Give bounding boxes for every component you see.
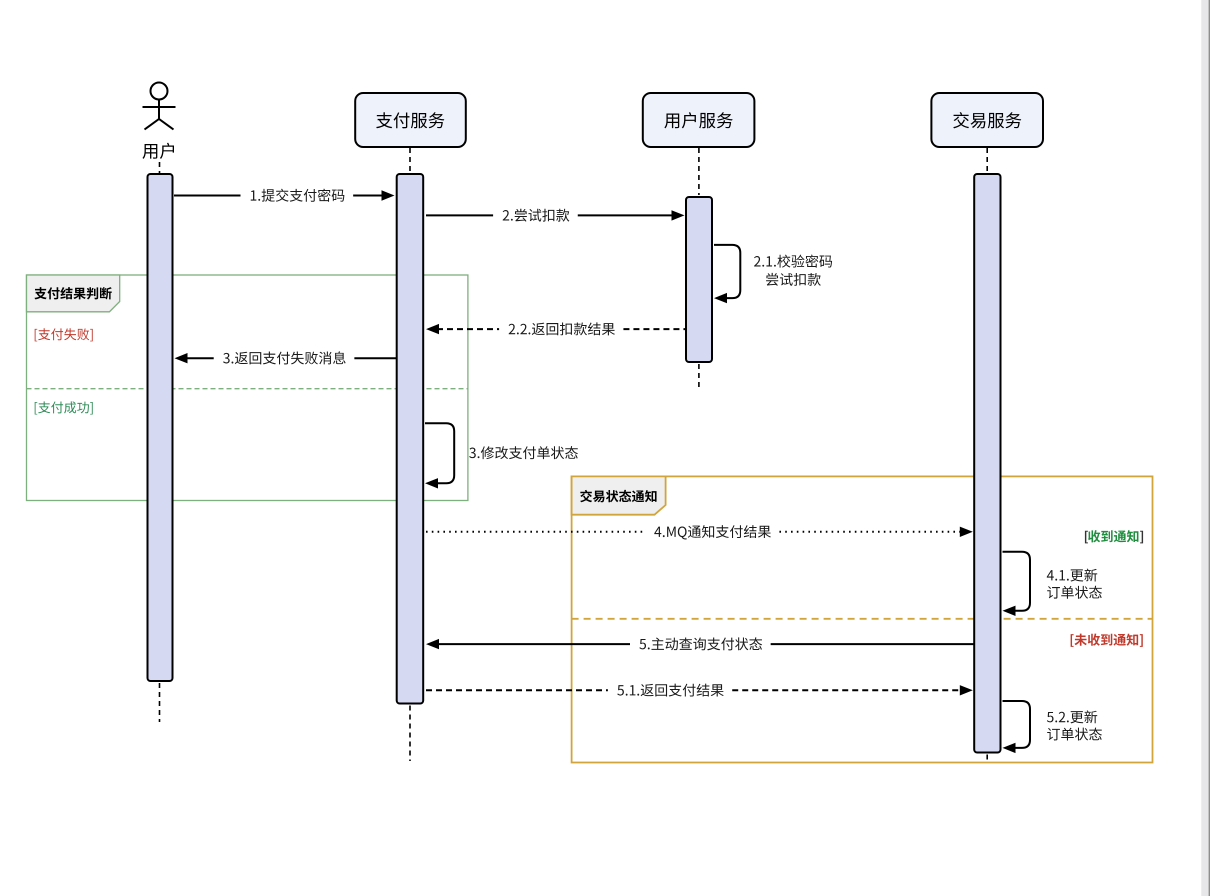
self message 5.2 label line2 <box>1047 728 1102 741</box>
activation bar 支付服务 <box>397 174 424 704</box>
actor 用户 legs <box>145 119 174 130</box>
right scrollbar track <box>1201 0 1210 896</box>
message 3.返回支付失败消息 line <box>175 353 397 363</box>
self message 2.1 label line1 <box>754 255 832 268</box>
alt frame title tab <box>27 275 120 312</box>
actor 用户 head <box>151 83 168 100</box>
guard [支付成功] <box>35 401 93 414</box>
lifeline 用户服务 upper <box>698 148 700 195</box>
message 1.提交支付密码 label <box>251 189 345 202</box>
alt frame divider <box>27 388 468 390</box>
message 5.主动查询支付状态 label <box>639 637 762 650</box>
message 2.2.返回扣款结果 label <box>509 322 615 335</box>
self message 3 loop <box>425 423 454 483</box>
message 1.提交支付密码 line <box>174 190 395 200</box>
actor 用户 arms <box>143 106 176 108</box>
activation bar 交易服务 <box>974 174 1000 753</box>
activation bar 用户服务 <box>686 197 712 362</box>
guard [收到通知] bracket open <box>1085 531 1088 544</box>
self message 4.1 label line2 <box>1047 586 1102 599</box>
lifeline 用户 lower <box>159 683 161 722</box>
guard [支付失败] <box>35 328 93 341</box>
opt frame 交易状态通知 border <box>572 476 1153 762</box>
message 3.返回支付失败消息 label <box>223 351 346 364</box>
self message 4.1 label line1 <box>1047 569 1097 582</box>
actor 用户 body <box>158 100 160 120</box>
lifeline 用户服务 lower <box>698 364 700 388</box>
self message 5.2 loop <box>1003 701 1031 748</box>
lifeline 支付服务 lower <box>409 706 411 762</box>
opt frame title tab <box>572 476 666 514</box>
guard [收到通知] text <box>1088 530 1138 542</box>
self message 2.1 loop <box>714 245 740 298</box>
lifeline header 支付服务 <box>355 93 466 147</box>
self message 3 label <box>469 446 578 459</box>
message 2.尝试扣款 label <box>503 209 570 222</box>
activation bar 用户 <box>148 174 173 681</box>
alt frame title 支付结果判断 <box>34 287 111 299</box>
opt frame divider <box>572 618 1153 620</box>
message 2.尝试扣款 line <box>426 210 685 220</box>
lifeline header 用户服务 <box>643 93 755 147</box>
actor label 用户 <box>142 143 174 159</box>
lifeline 交易服务 upper <box>986 148 988 173</box>
self message 5.2 label line1 <box>1047 710 1097 723</box>
opt frame title 交易状态通知 <box>580 490 656 502</box>
guard [未收到通知] <box>1071 634 1143 647</box>
lifeline header 交易服务 <box>931 93 1043 147</box>
lifeline 用户 upper <box>159 162 161 173</box>
self message 2.1 label line2 <box>766 273 821 286</box>
message 5.1.返回支付结果 label <box>617 684 723 697</box>
guard [收到通知] bracket close <box>1140 531 1143 544</box>
alt frame 支付结果判断 border <box>27 275 468 501</box>
message 4.MQ通知支付结果 label <box>654 525 771 539</box>
lifeline 支付服务 upper <box>409 148 411 173</box>
message 5.主动查询支付状态 line <box>426 639 974 649</box>
lifeline 交易服务 lower <box>986 755 988 763</box>
message 4.MQ通知支付结果 line <box>426 527 973 537</box>
self message 4.1 loop <box>1003 552 1031 611</box>
right scrollbar edge <box>1209 0 1210 896</box>
message 5.1.返回支付结果 line <box>426 685 973 695</box>
message 2.2.返回扣款结果 line <box>426 324 685 334</box>
